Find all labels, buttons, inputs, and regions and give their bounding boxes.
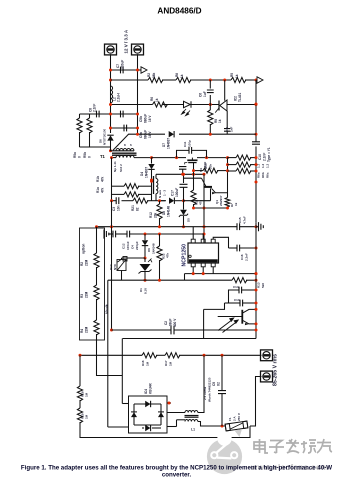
bridge diode bottom [145,425,150,431]
svg-text:2.2uH: 2.2uH [117,93,121,102]
watermark logo [207,439,242,474]
wire snubber bottom [80,146,111,148]
svg-text:250 V: 250 V [237,413,241,421]
pins to vcc rows [192,228,194,240]
bridge inner wires [134,403,161,405]
choke bottom right to fuse [198,422,225,427]
svg-text:C8: C8 [225,127,229,131]
resistor R6a sense [228,157,237,159]
resistor R8 [176,77,191,82]
wire startup chain [96,227,98,253]
diode D9 [144,234,146,240]
wire feedback row [111,104,153,106]
svg-text:D9: D9 [147,248,151,252]
svg-text:R5b: R5b [83,152,87,158]
wire primary return row [123,338,257,340]
transistor Q1 2N2907 [184,177,202,179]
resistor R1a clamp [112,185,125,187]
svg-text:47k: 47k [101,176,105,182]
capacitor C13 [225,302,241,304]
capacitor C7 [121,67,124,74]
capacitor C5a [124,125,127,132]
wire right output rail [137,54,139,134]
capacitor C6 [207,90,214,93]
wire discharge column [79,355,81,386]
wire right vertical rail secondary [255,80,257,142]
wire C5b row [80,113,138,115]
wire fb bottom row [108,279,232,281]
svg-text:NTC: NTC [113,263,117,270]
svg-text:9.1V: 9.1V [144,288,148,294]
resistor R2b [94,285,99,300]
svg-text:2.2nF: 2.2nF [263,153,267,161]
choke L1 winding bottom [185,420,198,422]
wire fb link [204,303,225,309]
svg-text:R12: R12 [149,212,153,218]
wire comp row [213,237,228,248]
svg-text:C15: C15 [238,217,242,223]
resistor R12 [157,204,162,219]
svg-text:2.2nF: 2.2nF [245,253,249,261]
svg-text:1.2: 1.2 [261,163,265,168]
capacitor gate [179,167,186,170]
wire return to bridge [121,339,123,404]
svg-text:R6: R6 [150,97,154,101]
svg-text:R2: R2 [80,262,84,266]
rail x210 [209,80,211,89]
svg-text:R1b: R1b [96,176,100,182]
svg-text:85-265 V rms: 85-265 V rms [273,354,279,386]
wire vdd row right [204,226,237,228]
resistor R16 [142,353,157,358]
svg-text:1k: 1k [180,74,184,78]
resistor R2a [94,253,99,268]
svg-text:C16: C16 [240,254,244,260]
capacitor C10 Y1 [252,142,260,144]
wire C7 row [111,69,138,71]
wire upper feedback row [111,79,149,81]
wire left output rail [110,54,112,133]
node Vout arrow right [257,77,263,83]
transformer T1 secondary winding [111,150,135,152]
svg-text:2 A: 2 A [233,416,237,421]
svg-text:220uF: 220uF [121,60,125,69]
shunt regulator IC2 TL431 [220,100,227,111]
transformer T1 core [112,152,137,154]
svg-text:R16: R16 [141,360,145,366]
startup option box [80,228,105,340]
svg-text:100p: 100p [188,140,192,147]
svg-text:R5: R5 [230,73,234,77]
gate resistor R10 [194,170,204,172]
bridge dc+ stub [167,402,171,404]
wire right rail primary [255,223,257,339]
resistor R13 [232,278,247,283]
resistor R19 [79,400,81,408]
wire ac line1 [80,354,142,356]
bridge diode right [158,412,164,417]
resistor R1b clamp [112,193,125,195]
mosfet M1 [191,158,193,160]
capacitor C8b [226,111,228,128]
wire bulk cap row [112,329,172,331]
wire C5a row [111,127,138,129]
svg-text:C13: C13 [234,298,240,302]
wire terminal N down to fuse [250,377,262,427]
svg-text:F1: F1 [228,417,232,421]
svg-text:TL431: TL431 [238,93,242,102]
opto light arrows [218,318,238,332]
diode D4 [151,158,153,164]
wire drv row [194,207,228,209]
wire secondary output row y134 [138,133,166,135]
output terminal J- [132,44,144,55]
svg-text:1N4937: 1N4937 [145,167,149,178]
capacitor C14 [229,290,240,303]
pins bottom [192,267,194,274]
svg-text:R1a: R1a [96,187,100,193]
svg-text:D7: D7 [162,143,166,147]
svg-text:68uF: 68uF [169,319,173,326]
svg-text:NCP1250: NCP1250 [182,244,188,267]
optocoupler LED [184,101,192,107]
svg-text:22M: 22M [85,259,89,266]
svg-text:680uF: 680uF [144,114,148,123]
svg-text:1N4148: 1N4148 [152,243,156,254]
svg-text:R13: R13 [257,282,261,288]
bridge to choke [167,412,185,414]
svg-text:C4: C4 [131,245,135,249]
svg-text:16 V: 16 V [148,115,152,122]
svg-text:400 V: 400 V [173,318,177,327]
X2 cap C9 [221,355,223,390]
svg-text:1nF: 1nF [230,126,234,132]
svg-text:KBU4K: KBU4K [149,382,153,394]
resistor R2c [94,320,99,335]
svg-text:IC2: IC2 [234,96,238,101]
svg-text:220pF: 220pF [135,241,139,250]
inductor L2 [111,86,113,103]
svg-text:X2: X2 [217,382,221,386]
svg-text:Wurth 744822120: Wurth 744822120 [208,377,212,402]
resistor R5b [87,118,92,133]
wire vbulk rail [111,201,113,227]
svg-text:12 V / 3.3 A: 12 V / 3.3 A [124,29,129,53]
svg-text:D4: D4 [140,172,144,176]
resistor R6c sense [228,170,237,172]
svg-text:R3: R3 [80,294,84,298]
wire ntc row [122,257,146,259]
svg-text:47k: 47k [101,187,105,193]
svg-text:0: 0 [88,156,92,158]
svg-text:S10 2: S10 2 [119,164,123,172]
resistor R7 [225,198,230,207]
output terminal J+ [105,44,117,55]
svg-text:1uF: 1uF [203,91,207,97]
wire fb return down [107,280,109,427]
snubber C11 [177,150,190,157]
resistor R6 [153,102,168,107]
svg-text:8: 8 [124,143,126,147]
svg-text:2N2907: 2N2907 [219,195,223,206]
svg-text:1.2: 1.2 [266,163,270,168]
svg-text:22M: 22M [85,291,89,298]
bridge rectifier IC4 box [129,396,168,433]
resistor R6b sense [228,164,237,166]
transformer T1 primary winding [116,155,134,157]
svg-text:38k: 38k [152,72,156,78]
svg-text:L1: L1 [191,428,195,432]
choke top right to ac [198,355,204,412]
controller U1 NCP1250 [188,243,219,263]
wire TL431 row [191,104,220,106]
wire vcc row1 [97,226,205,228]
svg-text:1.2: 1.2 [257,163,261,168]
svg-text:C6: C6 [199,93,203,97]
input terminal L [261,350,273,361]
svg-text:C2: C2 [164,321,168,325]
svg-text:1M: 1M [85,414,89,419]
svg-text:D5: D5 [187,218,191,222]
wire ic bottom row [185,273,257,275]
wire clamp top [112,157,117,159]
svg-text:20k: 20k [154,212,158,218]
capacitor C2 bulk [171,326,174,335]
svg-text:R6c: R6c [266,172,270,178]
svg-text:0: 0 [78,156,82,158]
svg-text:1M: 1M [146,361,150,366]
resistor R2 [148,77,163,82]
svg-text:22M: 22M [85,326,89,333]
svg-text:NTST30100: NTST30100 [103,128,107,145]
svg-text:1k: 1k [155,98,159,102]
svg-text:Figure 1. The adapter uses all: Figure 1. The adapter uses all the featu… [21,464,332,471]
resistor R5 [231,77,246,82]
zener D1 [144,258,146,262]
resistor R5a [77,118,82,133]
watermark text dianzifashaoyou [254,439,268,453]
svg-text:R5a: R5a [73,152,77,158]
wire source rail [227,158,229,198]
svg-text:100nF: 100nF [126,241,130,250]
choke core [185,415,199,417]
svg-text:10n: 10n [117,205,121,211]
svg-text:5k6: 5k6 [261,283,265,288]
node out arrow [138,69,142,71]
resistor R22 [159,234,161,246]
svg-text:1k: 1k [234,202,238,206]
diode D6 [107,135,113,140]
bridge diode top [145,401,150,407]
svg-text:IC4: IC4 [144,389,148,394]
svg-text:C3: C3 [112,207,116,211]
svg-text:T1: T1 [100,154,106,159]
capacitor C17 [183,174,185,183]
svg-text:6: 6 [130,143,132,147]
resistor R18 [77,386,82,401]
wire clamp bottom C3 R21 [112,200,117,202]
svg-text:R6b: R6b [261,172,265,178]
svg-text:R21: R21 [131,205,135,211]
rail x204 [203,174,205,243]
input terminal N [261,371,273,382]
diode D7 [169,131,174,137]
wire secondary to gnd rail diagonal [113,134,138,150]
wire bottom ac return [80,422,250,438]
svg-text:C5b: C5b [139,116,143,122]
svg-text:47k: 47k [166,253,170,258]
choke L1 winding top [185,411,198,413]
svg-text:D1: D1 [139,288,143,292]
svg-text:C7: C7 [116,64,120,68]
ground right [256,226,259,228]
svg-text:AND8486/D: AND8486/D [157,7,201,16]
optocoupler phototransistor IC3 [241,310,243,324]
wire aux dc row [152,200,166,202]
svg-text:C11: C11 [183,141,187,147]
svg-text:1M: 1M [85,392,89,397]
svg-text:1 - 3: 1 - 3 [163,190,167,196]
svg-text:C14: C14 [233,285,239,289]
svg-text:Type = Y1: Type = Y1 [267,147,271,162]
zener D5 [183,201,185,210]
svg-text:2.2nF: 2.2nF [93,104,97,112]
svg-text:R4: R4 [80,329,84,333]
svg-text:Vbulk: Vbulk [105,304,109,314]
wire vcc row2 caps [104,229,109,238]
svg-text:option: option [82,244,86,254]
svg-text:82: 82 [136,207,140,211]
transformer aux winding [153,176,155,194]
wire clamp left rail [111,158,113,201]
resistor R17 [165,353,180,358]
svg-text:1N4937: 1N4937 [167,138,171,149]
wire startup to bridge [97,340,123,376]
svg-text:converter.: converter. [162,471,192,478]
thermistor R14 NTC [117,260,126,271]
svg-text:R17: R17 [164,360,168,366]
svg-text:R6a: R6a [257,172,261,178]
svg-text:100uF: 100uF [175,188,179,197]
svg-text:C12: C12 [122,243,126,249]
svg-text:R2: R2 [147,73,151,77]
resistor R9 [208,110,213,125]
svg-text:R10: R10 [204,163,208,169]
bridge diode left [131,412,137,417]
svg-text:C10: C10 [258,154,262,160]
svg-text:1M: 1M [169,361,173,366]
svg-text:C9: C9 [212,382,216,386]
wire vcc top row [156,173,204,175]
svg-text:20k: 20k [209,164,213,169]
wire drain row [152,157,177,159]
svg-text:Np 1-11: Np 1-11 [113,161,117,172]
capacitor C5b [121,111,124,118]
svg-text:1k: 1k [235,74,239,78]
svg-text:1k: 1k [218,119,222,123]
svg-text:C17: C17 [171,190,175,196]
svg-text:4.7uF: 4.7uF [243,216,247,224]
svg-text:R8: R8 [175,73,179,77]
resistor R11 [193,177,195,190]
diode D8 [169,198,174,204]
svg-text:1N4148: 1N4148 [167,206,171,217]
svg-text:N aux: N aux [158,189,162,198]
svg-text:C5a: C5a [139,132,143,138]
capacitor C8 [97,111,100,118]
fuse F1 [225,421,248,431]
